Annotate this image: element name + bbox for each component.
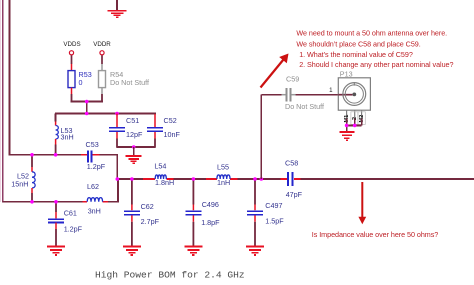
- capacitor C62: [124, 179, 160, 246]
- inductor L55: [217, 163, 230, 187]
- inductor L54: [154, 162, 174, 187]
- svg-text:1: 1: [329, 87, 333, 94]
- svg-text:C58: C58: [285, 159, 298, 168]
- svg-text:Do Not Stuff: Do Not Stuff: [110, 78, 149, 87]
- node dots P13: [345, 124, 349, 128]
- node dots y202: [30, 200, 34, 204]
- svg-text:1.8nH: 1.8nH: [155, 178, 174, 187]
- svg-text:VDDR: VDDR: [93, 41, 111, 48]
- svg-text:3nH: 3nH: [61, 133, 74, 142]
- resistor R53: [68, 70, 92, 103]
- wire: C53 to corner x117: [99, 154, 118, 156]
- svg-text:P13: P13: [340, 70, 353, 79]
- node dot C51/C52 gnd: [132, 145, 136, 149]
- svg-text:3nH: 3nH: [88, 207, 101, 216]
- svg-text:C61: C61: [64, 209, 77, 218]
- wire: vertical x117 down to main line: [116, 155, 118, 179]
- svg-text:1nH: 1nH: [217, 178, 230, 187]
- svg-text:1.8pF: 1.8pF: [201, 218, 220, 227]
- red annotation text block: [296, 28, 453, 69]
- ground under C62: [123, 247, 141, 255]
- wire ground net under C51/C52: [117, 146, 155, 148]
- inductor L52: [11, 155, 35, 202]
- svg-text:C53: C53: [86, 140, 99, 149]
- svg-text:1.2pF: 1.2pF: [64, 225, 83, 234]
- wire red stub right of C53: [93, 154, 100, 156]
- svg-text:Is Impedance value over here 5: Is Impedance value over here 50 ohms?: [312, 230, 438, 239]
- svg-text:12pF: 12pF: [126, 130, 143, 139]
- capacitor C61: [48, 202, 83, 246]
- svg-text:2. Should I change any other p: 2. Should I change any other part nomina…: [299, 60, 453, 69]
- svg-text:1.5pF: 1.5pF: [265, 217, 284, 226]
- wire stem to ground: [133, 147, 135, 156]
- svg-text:We shouldn’t place C58 and pla: We shouldn’t place C58 and place C59.: [296, 40, 420, 49]
- left off-page wire A: [3, 0, 10, 202]
- connector P13: [338, 70, 370, 111]
- svg-text:C496: C496: [202, 200, 219, 209]
- svg-text:We need to mount a 50 ohm ante: We need to mount a 50 ohm antenna over h…: [296, 28, 447, 37]
- capacitor C59 (Do Not Stuff, series): [282, 75, 325, 112]
- svg-text:VDDS: VDDS: [63, 41, 80, 48]
- node dots main line: [116, 177, 264, 181]
- capacitor C51: [109, 114, 143, 148]
- capacitor C53 (series, horizontal): [86, 140, 106, 171]
- capacitor C58 (series, horizontal): [285, 159, 303, 200]
- svg-text:L55: L55: [217, 163, 229, 172]
- wire joining R53/R54 bottoms: [71, 101, 103, 103]
- resistor R54 (Do Not Stuff): [99, 70, 150, 103]
- inductor L62 (horizontal): [87, 182, 103, 216]
- capacitor C52: [147, 114, 180, 148]
- P13 pins M1 / 2 / M2: [344, 110, 365, 124]
- wire: net y202 horizontal from left edge to L62: [3, 201, 83, 203]
- wire red stub right of L62: [103, 201, 108, 203]
- wires P13 pins to ground net: [346, 119, 362, 132]
- svg-text:L62: L62: [87, 182, 99, 191]
- svg-text:C62: C62: [141, 202, 154, 211]
- wire: net y155 horizontal from left edge to C53: [9, 154, 81, 156]
- left off-page wire B: [9, 0, 11, 156]
- svg-text:Do Not Stuff: Do Not Stuff: [285, 102, 324, 111]
- svg-text:High Power BOM for 2.4 GHz: High Power BOM for 2.4 GHz: [95, 269, 245, 280]
- node junction dots top: [85, 100, 119, 116]
- wire bus y113.5: [55, 113, 156, 115]
- svg-text:1. What’s the nominal value of: 1. What’s the nominal value of C59?: [299, 50, 413, 59]
- power symbol VDDR: [93, 41, 111, 71]
- svg-text:C59: C59: [286, 75, 299, 84]
- power symbol VDDS: [63, 41, 80, 71]
- ground top: [108, 11, 127, 18]
- wire: L62 to corner x117 up to main line: [108, 179, 118, 202]
- ground under C497: [246, 247, 264, 255]
- red annotation arrow (down): [358, 182, 366, 224]
- capacitor C497: [247, 179, 284, 246]
- wire branch up to C59/P13: [261, 95, 338, 179]
- red annotation arrow (up-right): [261, 54, 289, 88]
- top ground stem x117: [116, 0, 118, 11]
- svg-text:C497: C497: [265, 201, 282, 210]
- inductor L53: [56, 122, 74, 155]
- node dots y155: [30, 153, 34, 157]
- wire bus left corner down to L53: [55, 114, 57, 122]
- svg-text:10nF: 10nF: [164, 130, 181, 139]
- ground under C61: [47, 247, 65, 255]
- wire main line y179: [117, 178, 474, 180]
- sheet edge pale line: [0, 0, 2, 202]
- wire red stub left of C53: [81, 154, 88, 156]
- svg-text:47pF: 47pF: [286, 190, 303, 199]
- wire red stub left of L62: [83, 201, 88, 203]
- svg-text:0: 0: [79, 78, 83, 87]
- capacitor C496: [186, 179, 221, 246]
- wire drop from R join to bus: [86, 102, 88, 114]
- svg-text:2.7pF: 2.7pF: [141, 217, 160, 226]
- svg-text:15nH: 15nH: [11, 179, 28, 188]
- ground under C496: [184, 247, 202, 255]
- svg-text:1.2pF: 1.2pF: [87, 162, 106, 171]
- svg-text:L54: L54: [154, 162, 166, 171]
- svg-text:C51: C51: [126, 116, 139, 125]
- ground under C51/C52: [126, 156, 142, 163]
- svg-text:C52: C52: [164, 116, 177, 125]
- ground under P13: [339, 132, 354, 140]
